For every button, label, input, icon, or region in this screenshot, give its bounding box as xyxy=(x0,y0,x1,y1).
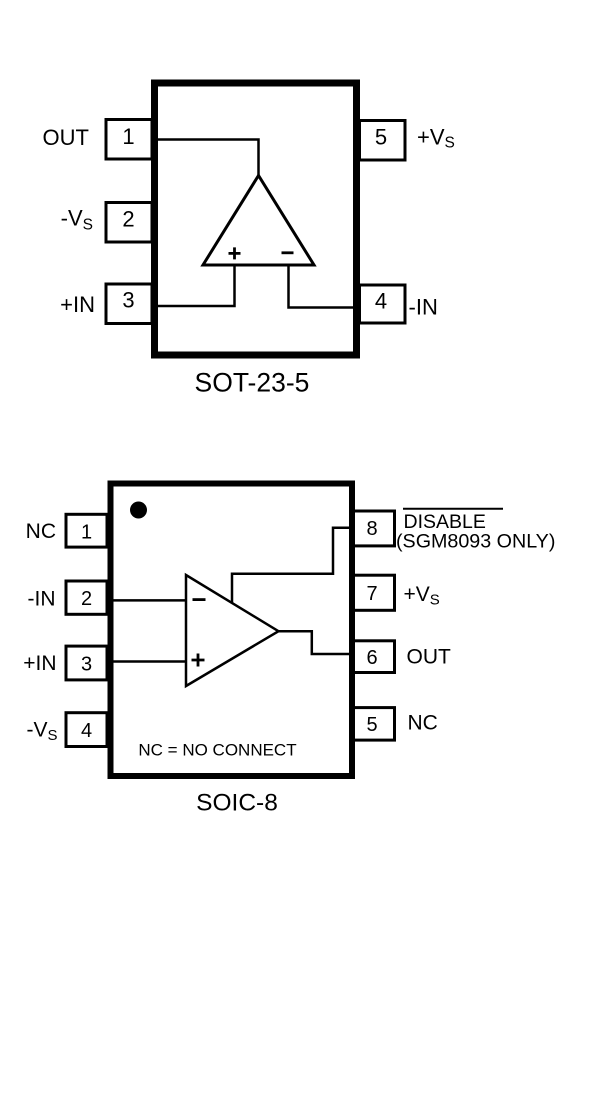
pin 1 indicator dot xyxy=(130,502,147,519)
plus sign (non-inverting input, SOIC) xyxy=(192,654,205,667)
svg-text:8: 8 xyxy=(366,518,377,540)
pin 1 box (OUT) xyxy=(106,120,152,160)
svg-text:3: 3 xyxy=(122,288,134,313)
svg-text:4: 4 xyxy=(375,289,387,314)
op-amp triangle U2 (SOIC) xyxy=(186,575,279,686)
pin 5 box (NC) xyxy=(354,708,395,741)
op-amp triangle U1 (SOT) xyxy=(203,176,314,266)
overline for DISABLE xyxy=(403,508,503,510)
svg-text:1: 1 xyxy=(81,522,92,544)
wire -IN pin2 to op-amp xyxy=(107,599,186,602)
minus sign (inverting input) xyxy=(282,251,294,254)
svg-text:5: 5 xyxy=(375,125,387,150)
wire +IN pin3 to op-amp xyxy=(153,265,235,306)
pin 5 box (+Vs) xyxy=(360,121,406,161)
svg-text:+IN: +IN xyxy=(60,292,95,317)
svg-text:OUT: OUT xyxy=(407,646,452,669)
pin 4 box (-IN) xyxy=(360,285,406,323)
wire +IN pin3 to op-amp xyxy=(107,660,186,663)
package body SOIC-8 xyxy=(111,484,353,777)
svg-text:2: 2 xyxy=(122,207,134,232)
svg-text:(SGM8093 ONLY): (SGM8093 ONLY) xyxy=(396,531,555,553)
svg-text:5: 5 xyxy=(366,714,377,736)
plus sign (non-inverting input) xyxy=(229,247,241,259)
svg-text:6: 6 xyxy=(366,647,377,669)
pin 1 box (NC) xyxy=(66,514,107,547)
svg-text:7: 7 xyxy=(366,583,377,605)
svg-text:2: 2 xyxy=(81,588,92,610)
svg-text:3: 3 xyxy=(81,653,92,675)
svg-text:NC: NC xyxy=(26,520,56,543)
svg-text:1: 1 xyxy=(122,124,134,149)
pin 8 box (DISABLE) xyxy=(354,511,395,546)
svg-text:4: 4 xyxy=(81,720,92,742)
svg-text:-IN: -IN xyxy=(28,588,56,611)
wire -IN pin4 to op-amp xyxy=(289,265,360,308)
wire op-amp output to pin 6 xyxy=(279,631,354,654)
pin 6 box (OUT) xyxy=(354,641,395,673)
wire pin1 OUT to op-amp apex xyxy=(153,140,259,177)
pin 3 box (+IN) xyxy=(106,284,152,324)
svg-text:SOIC-8: SOIC-8 xyxy=(196,789,278,816)
minus sign (inverting input, SOIC) xyxy=(193,598,206,601)
svg-text:+IN: +IN xyxy=(23,652,56,675)
wire pin 8 DISABLE to op-amp xyxy=(232,528,354,604)
svg-text:NC = NO CONNECT: NC = NO CONNECT xyxy=(138,741,296,760)
pin 2 box (-Vs) xyxy=(106,203,152,243)
svg-text:OUT: OUT xyxy=(43,125,89,150)
pin 2 box (-IN) xyxy=(66,581,107,614)
package body SOT-23-5 xyxy=(155,83,357,355)
svg-text:-IN: -IN xyxy=(409,295,438,320)
svg-text:NC: NC xyxy=(408,711,438,734)
svg-text:SOT-23-5: SOT-23-5 xyxy=(195,367,310,397)
pin 7 box (+Vs) xyxy=(354,575,395,610)
pin 3 box (+IN) xyxy=(66,646,107,680)
pin 4 box (-Vs) xyxy=(66,713,107,747)
